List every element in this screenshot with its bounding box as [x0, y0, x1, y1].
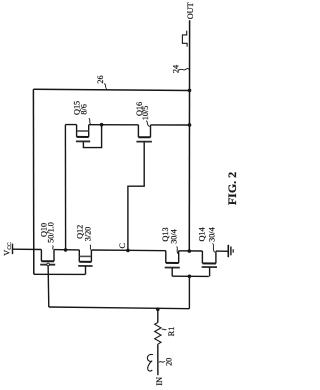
node dot mid row/OUT bus [188, 249, 192, 253]
svg-text:IN: IN [155, 377, 164, 386]
svg-text:8/6: 8/6 [80, 104, 89, 114]
wire bottom input horizontal [49, 307, 190, 309]
pointer squiggle Q10 [52, 246, 55, 250]
resistor R1 [155, 309, 161, 375]
transistor Q10 [40, 250, 55, 266]
svg-text:Q14: Q14 [198, 227, 207, 241]
wire Q16 gate to node C [128, 142, 144, 251]
pointer tilde 24 [179, 68, 190, 70]
pointer tilde 20 [159, 361, 165, 362]
node dot net26/OUT [188, 89, 192, 93]
wire Q15/Q16 row horizontal [65, 124, 189, 126]
wire gate bus Q10-Q12 horizontal [34, 273, 86, 275]
wire Q10 to Q12 row [54, 249, 79, 251]
node dot gate bus [188, 275, 192, 279]
svg-text:OUT: OUT [186, 2, 195, 19]
pointer squiggle Q16 [146, 121, 149, 127]
node dot row15/OUT [188, 123, 192, 127]
transistor Q12 [78, 250, 92, 275]
svg-text:10/5: 10/5 [141, 106, 150, 121]
transistor Q15 [76, 125, 102, 148]
node dot R1 top [156, 307, 160, 311]
wire Q12 to Q13 row (node C) [91, 249, 165, 252]
svg-text:20: 20 [165, 358, 174, 366]
svg-text:C: C [118, 243, 127, 249]
node dot Q15 gate-drain [100, 123, 104, 127]
junction dots [64, 89, 192, 311]
svg-text:FIG. 2: FIG. 2 [225, 172, 239, 205]
transistor Q16 [136, 125, 152, 142]
pointer squiggle Q14 [213, 243, 215, 252]
wire VCC to Q10 lead [13, 248, 42, 250]
svg-text:26: 26 [96, 75, 105, 83]
pointer squiggle R1 [162, 328, 167, 331]
transistor Q14 [202, 251, 217, 276]
wire Q10 gate down lead [47, 265, 50, 307]
node dot Q15 vertical/mid row [64, 248, 68, 252]
pointer squiggle Q13 [177, 246, 178, 253]
svg-text:30/4: 30/4 [169, 229, 178, 244]
pointer squiggle 26 [104, 84, 107, 90]
wire Q13 to Q14 row [179, 250, 203, 252]
svg-text:24: 24 [171, 65, 180, 73]
ground symbol [228, 245, 233, 257]
output pulse waveform [182, 31, 187, 47]
VCC terminal [12, 244, 14, 255]
svg-text:50/1.0: 50/1.0 [47, 222, 56, 243]
pointer squiggle Q15 [89, 118, 91, 124]
pointer squiggle Q12 [90, 245, 91, 250]
wire net 26 top horizontal [33, 89, 189, 90]
wire OUT bus vertical (net 24) [188, 20, 190, 251]
svg-text:3/20: 3/20 [83, 227, 92, 242]
transistor Q13 [165, 251, 180, 277]
wire left bus vertical [32, 89, 34, 274]
svg-text:VCC: VCC [2, 242, 13, 256]
node dot C [126, 249, 130, 253]
wire Q14 to ground lead [216, 250, 228, 252]
wire gate bus down right vertical [188, 276, 190, 308]
svg-text:R1: R1 [167, 327, 176, 337]
wire Q13/Q14 gate bus [172, 275, 209, 277]
wire Q15 drain vertical [64, 125, 66, 250]
input squiggle node 20 [147, 354, 153, 371]
svg-text:30/4: 30/4 [208, 227, 217, 242]
